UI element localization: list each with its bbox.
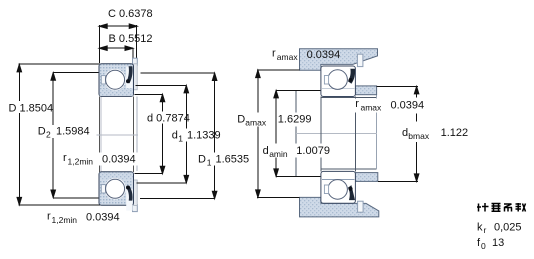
bearing left face line <box>320 96 322 171</box>
ramax second arrow <box>414 86 419 97</box>
char ji <box>477 203 489 212</box>
lower ball pocket <box>104 178 126 200</box>
sleeve top (shaft abutment ring) <box>355 86 376 95</box>
lower seal (dark) <box>127 186 133 201</box>
svg-text:D: D <box>38 126 46 138</box>
C extension line left <box>98 25 100 63</box>
svg-text:2: 2 <box>46 130 51 140</box>
svg-text:d: d <box>172 130 178 142</box>
D2 bottom extension line <box>53 197 99 199</box>
dimension d line <box>160 94 165 173</box>
right lower inner ring line <box>322 178 355 180</box>
D top extension line <box>19 63 99 65</box>
svg-text:1.5984: 1.5984 <box>56 126 90 138</box>
right upper seal dot <box>349 78 353 82</box>
svg-text:D 1.8504: D 1.8504 <box>9 103 54 115</box>
D1 bottom extension line <box>140 198 215 200</box>
C extension line right <box>136 25 138 62</box>
D1 top extension line <box>140 72 214 74</box>
bore silhouette shadow right <box>136 96 138 171</box>
seal silhouette strip lower right <box>134 180 138 206</box>
sleeve bottom (shaft abutment ring) <box>355 173 377 182</box>
char suan <box>492 204 501 212</box>
centerline left figure <box>97 134 139 136</box>
dbmax bottom extension <box>378 180 418 182</box>
snap ring tab lower <box>133 205 138 212</box>
svg-text:amax: amax <box>361 103 383 113</box>
svg-text:d: d <box>402 127 408 139</box>
char shu <box>516 203 526 212</box>
svg-text:13: 13 <box>492 237 504 249</box>
lower seal pivot dot <box>126 186 130 190</box>
svg-text:1: 1 <box>207 157 212 167</box>
svg-text:0.0394: 0.0394 <box>86 212 120 224</box>
right lower ball <box>328 180 348 200</box>
upper ball pocket <box>104 69 126 91</box>
right bearing lower section <box>321 171 356 203</box>
dimension d label <box>146 112 192 125</box>
D bottom extension line <box>19 204 136 206</box>
upper seal groove (white) <box>126 67 132 89</box>
shaft shoulder outline <box>295 90 297 176</box>
d bottom extension line <box>135 173 163 175</box>
bearing right face line <box>354 96 356 171</box>
lower left seal recess <box>101 185 105 193</box>
right lower left seal recess <box>324 185 328 194</box>
right upper seal (dark) <box>348 69 355 84</box>
dimension B line <box>99 46 133 51</box>
lower ball <box>106 179 125 198</box>
bore silhouette line right <box>132 96 134 172</box>
housing bottom block <box>300 197 379 217</box>
shaft cylinder <box>321 95 377 169</box>
svg-text:1,2min: 1,2min <box>52 215 78 225</box>
bearing lower section body <box>99 172 134 205</box>
svg-text:D: D <box>237 114 245 126</box>
right upper ball <box>328 70 348 90</box>
ramax second / dbmax shared extension top <box>377 85 418 87</box>
dimension D2 label <box>37 125 90 140</box>
dimension D1 label <box>197 153 249 168</box>
svg-text:d: d <box>263 145 269 157</box>
housing top block <box>300 49 378 70</box>
svg-text:1.122: 1.122 <box>441 127 469 139</box>
Damax top extension line <box>257 69 299 71</box>
d1 bottom extension line <box>137 182 187 184</box>
bearing upper section body <box>99 64 134 97</box>
svg-text:r: r <box>272 48 276 60</box>
svg-text:0.0394: 0.0394 <box>391 100 425 112</box>
upper seal pivot dot <box>126 79 130 83</box>
centerline right figure <box>296 132 377 134</box>
svg-text:1,2min: 1,2min <box>68 157 94 167</box>
svg-text:k: k <box>477 222 483 234</box>
leader segment between labels <box>416 114 418 122</box>
bore silhouette line left <box>98 96 100 172</box>
svg-text:1.1339: 1.1339 <box>187 130 221 142</box>
shaft shoulder top line / damin top extension <box>276 89 321 91</box>
dimension D1 line <box>212 73 217 199</box>
dimension damin line <box>274 90 279 176</box>
dimension d1 line <box>184 85 189 182</box>
d top extension line <box>135 93 163 95</box>
shaft shoulder bottom line / damin bottom extension <box>276 175 321 177</box>
dimension d1 label <box>171 129 223 144</box>
upper seal (dark) <box>127 66 133 83</box>
dimension D line <box>17 64 22 205</box>
bore silhouette shadow left <box>100 96 102 172</box>
svg-text:d 0.7874: d 0.7874 <box>147 113 190 125</box>
char xi <box>504 204 512 212</box>
right lower seal (dark) <box>348 185 355 200</box>
svg-text:r: r <box>484 225 487 235</box>
svg-text:0,025: 0,025 <box>494 222 522 234</box>
damin label <box>262 144 333 160</box>
right upper inner ring line <box>322 88 355 90</box>
right upper left seal recess <box>324 76 328 85</box>
svg-text:1: 1 <box>178 134 183 144</box>
svg-text:0.0394: 0.0394 <box>102 154 136 166</box>
d1 top extension line <box>136 84 187 86</box>
dimension dbmax line <box>414 142 419 181</box>
upper inner ring strip <box>100 89 133 96</box>
dimension Damax line <box>256 70 261 197</box>
svg-text:1.0079: 1.0079 <box>296 145 330 157</box>
lower inner ring strip <box>100 173 133 180</box>
dimension D label <box>8 101 55 115</box>
seal silhouette strip upper right <box>134 64 138 90</box>
Damax bottom extension line <box>257 196 299 198</box>
right lower seal dot <box>349 187 353 191</box>
svg-text:0: 0 <box>481 241 486 251</box>
dimension C line <box>99 24 137 29</box>
B extension line right <box>132 48 134 62</box>
svg-text:C 0.6378: C 0.6378 <box>108 8 153 20</box>
r12min first label <box>61 152 139 167</box>
svg-text:amin: amin <box>269 149 288 159</box>
right bearing upper section <box>321 66 356 97</box>
upper left seal recess <box>101 76 105 84</box>
svg-text:B 0.5512: B 0.5512 <box>109 33 153 45</box>
housing top snap-ring slot <box>357 54 363 66</box>
svg-text:r: r <box>355 98 359 110</box>
计算系数 heading (CJK strokes drawn) <box>477 203 526 212</box>
svg-text:D: D <box>198 153 206 165</box>
snap ring tab upper <box>133 58 138 65</box>
Damax label <box>236 113 311 128</box>
upper ball <box>106 70 125 89</box>
lower seal groove (white) <box>126 189 132 211</box>
svg-text:1.6535: 1.6535 <box>216 153 250 165</box>
svg-text:bmax: bmax <box>408 131 430 141</box>
svg-text:amax: amax <box>245 118 267 128</box>
D2 top extension line <box>53 71 99 73</box>
svg-text:1.6299: 1.6299 <box>278 114 312 126</box>
svg-text:amax: amax <box>277 52 299 62</box>
dimension D2 line <box>51 73 56 198</box>
ramax second label <box>354 99 387 113</box>
svg-text:r: r <box>47 210 51 222</box>
svg-text:0.0394: 0.0394 <box>307 49 341 61</box>
svg-text:r: r <box>63 152 67 164</box>
housing bottom snap-ring slot <box>358 201 364 212</box>
